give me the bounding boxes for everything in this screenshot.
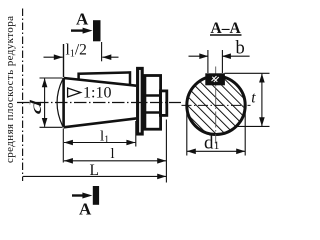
conical shaft body: [64, 78, 137, 127]
section arrow bottom: [72, 194, 85, 196]
svg-text:t: t: [251, 90, 256, 107]
shaft cross-section circle with hatching: [187, 76, 245, 134]
dimension b lines and arrows: [189, 55, 250, 57]
dimension d arrows: [42, 78, 48, 87]
key cross-section: [206, 74, 223, 84]
reducer mid-plane centerline: [22, 9, 24, 182]
taper symbol triangle: [68, 88, 81, 97]
shaft threaded end: [160, 91, 166, 116]
section mark bar bottom: [93, 186, 99, 205]
dimension l1/2 lines and arrows: [44, 56, 119, 58]
section mark bar top: [93, 20, 101, 41]
dimension l1 line: [64, 142, 135, 144]
svg-text:l: l: [111, 146, 115, 162]
dimension d line: [44, 79, 46, 127]
svg-text:средняя плоскость редуктора: средняя плоскость редуктора: [4, 16, 16, 163]
hex nut side view: [145, 76, 161, 130]
title underline: [210, 34, 242, 36]
svg-text:l1/2: l1/2: [66, 41, 87, 59]
dimension l line: [64, 160, 166, 162]
svg-text:1:10: 1:10: [83, 84, 111, 101]
svg-text:L: L: [90, 162, 99, 179]
svg-text:d: d: [27, 100, 44, 115]
shaft end face arc: [57, 80, 63, 127]
dimension d1 extension lines: [187, 110, 245, 156]
l1/2 extension line left: [63, 44, 65, 77]
main view centerline: [17, 102, 181, 104]
dimension L line: [23, 175, 166, 177]
A-A horizontal centerline: [182, 104, 251, 106]
l1/2 extension line right: [101, 42, 103, 61]
dimension t line: [261, 74, 263, 127]
left extension line for l1 and l: [62, 129, 64, 163]
nut facet lines: [144, 96, 161, 113]
dimension b extension lines: [208, 50, 223, 73]
l1 right extension line: [135, 121, 137, 147]
collar disc: [138, 68, 143, 134]
A-A vertical centerline: [215, 67, 217, 144]
section arrow top: [71, 29, 85, 31]
svg-text:b: b: [236, 39, 245, 59]
svg-text:A: A: [79, 200, 92, 219]
key on cone, side view: [79, 72, 130, 85]
right extension line for l and L: [165, 120, 167, 183]
dimension d extension lines: [40, 78, 63, 127]
svg-text:A: A: [76, 10, 89, 29]
dimension d1 line: [187, 150, 245, 152]
dimension t extension lines: [225, 73, 270, 126]
